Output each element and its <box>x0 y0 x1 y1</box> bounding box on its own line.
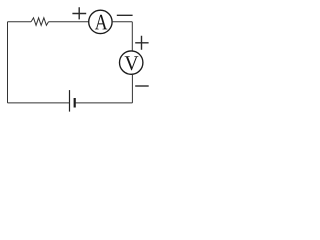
minus label (ammeter -) <box>117 14 133 16</box>
battery BT1 long plate <box>69 90 71 112</box>
wire bottom right horizontal <box>76 102 133 104</box>
voltmeter label V <box>125 56 139 70</box>
wire bottom left horizontal <box>8 102 70 104</box>
resistor R1 <box>31 18 48 26</box>
ammeter label A <box>95 15 108 30</box>
wire right lower vertical <box>131 74 133 103</box>
minus label (voltmeter -) <box>135 85 149 87</box>
ammeter U1 circle <box>89 10 112 33</box>
plus label (ammeter +) <box>72 7 86 19</box>
wire right upper vertical <box>131 22 133 51</box>
wire left vertical <box>7 22 9 103</box>
battery BT1 short thick plate <box>74 98 76 108</box>
wire top-left horizontal <box>8 21 32 23</box>
voltmeter U2 circle <box>120 51 143 74</box>
wire ammeter to top-right corner <box>112 21 132 23</box>
plus label (voltmeter +) <box>135 36 148 50</box>
wire resistor to ammeter <box>49 21 89 23</box>
